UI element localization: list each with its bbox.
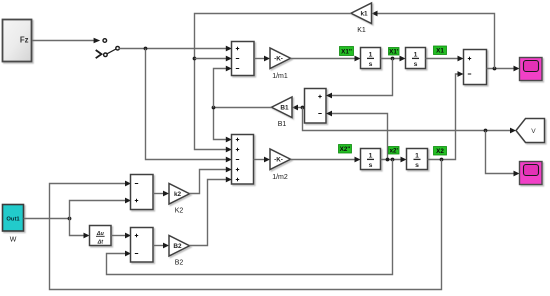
svg-text:k1: k1 — [360, 11, 368, 18]
source block Fz — [3, 20, 32, 62]
wire I1 to integrator I2 — [381, 58, 402, 60]
wire W net up to k2 sum port2 — [70, 201, 128, 219]
integrator I2 — [406, 48, 426, 69]
svg-text:X1'': X1'' — [341, 48, 352, 55]
svg-text:1/m1: 1/m1 — [272, 73, 288, 80]
svg-text:X2: X2 — [436, 148, 444, 155]
tag X2'' — [339, 145, 352, 154]
sum S1 — [232, 42, 255, 76]
svg-text:B1: B1 — [278, 121, 287, 128]
sum S5 spring k2 — [131, 175, 154, 210]
svg-text:1: 1 — [369, 153, 373, 160]
junction B1 net — [212, 106, 216, 110]
svg-text:s: s — [369, 61, 373, 68]
wire stub up to S1 port3 — [214, 69, 228, 108]
svg-text:s: s — [414, 61, 418, 68]
wire du/dt to B2 sum port1 — [111, 235, 127, 237]
integrator I3 — [361, 149, 381, 170]
svg-text:s: s — [415, 162, 419, 169]
wire stub to S1 port2 — [195, 58, 228, 60]
svg-text:1/m2: 1/m2 — [272, 174, 288, 181]
svg-text:-K-: -K- — [274, 56, 283, 63]
gain G1 1/m1 — [270, 48, 291, 80]
tag X1' — [389, 48, 400, 56]
junction W net — [68, 217, 72, 221]
gain B1 — [272, 97, 293, 128]
tag X2 — [434, 147, 447, 156]
junction V net — [484, 129, 488, 133]
wire S2 output to gain 1/m2 — [254, 159, 267, 161]
svg-text:B2: B2 — [175, 260, 184, 267]
wire node V to goto V and scope SC2 — [303, 108, 512, 131]
derivative block du/dt — [90, 226, 112, 246]
wire I3 to integrator I4 — [381, 159, 403, 161]
wire gain 1/m1 to integrator I1 — [291, 58, 357, 60]
wire Fz output to switch — [32, 40, 95, 42]
gain k2 — [169, 184, 190, 215]
svg-text:1: 1 — [415, 153, 419, 160]
svg-text:V: V — [531, 128, 536, 135]
wire S4 output to gain B1 — [298, 107, 305, 109]
wire W net down to derivative — [70, 219, 86, 236]
junction node X2 — [440, 158, 444, 162]
wire I4 up to S3 port2 — [428, 74, 460, 160]
wire S5 output to gain k2 — [153, 193, 165, 195]
wire X2' up to S4 port2 — [332, 114, 388, 160]
wire switch net down to sum S2 port3 — [146, 49, 228, 160]
svg-text:1: 1 — [369, 52, 373, 59]
tag X1 — [434, 46, 447, 55]
svg-text:x2': x2' — [389, 148, 398, 155]
wire S6 output to gain B2 — [153, 245, 165, 247]
wire S1 output to gain 1/m1 — [254, 58, 266, 60]
wire X1' down to S4 port1 — [332, 59, 393, 96]
wire S3 output to scope SC1 — [487, 68, 516, 70]
sum S3 output comparison — [464, 50, 487, 85]
wire feedback up to gain K1 — [377, 14, 495, 69]
manual switch SW1 — [96, 39, 120, 59]
junction node V — [301, 106, 305, 110]
svg-text:Fz: Fz — [20, 36, 29, 45]
gain B2 — [169, 236, 190, 267]
sum S2 mass2 forces — [232, 135, 254, 185]
svg-text:Δt: Δt — [97, 240, 104, 246]
wire I2 to sum S3 port1 — [426, 58, 460, 60]
scope SC2 — [520, 162, 543, 185]
svg-text:B2: B2 — [173, 243, 182, 250]
tag x2' — [389, 147, 400, 155]
scope SC1 — [520, 58, 543, 81]
svg-text:W: W — [10, 237, 17, 244]
wire B1 output to S1 port3 and S2 port1 — [214, 108, 272, 140]
sum S6 damper B2 — [131, 228, 154, 263]
svg-text:B1: B1 — [280, 105, 289, 112]
integrator I4 — [407, 149, 428, 170]
svg-text:X2'': X2'' — [340, 146, 351, 153]
svg-text:X1': X1' — [389, 49, 399, 56]
svg-text:Out1: Out1 — [6, 217, 20, 223]
junction node X2' to S4 — [386, 158, 390, 162]
tag X1'' — [340, 47, 354, 56]
wire Out1 to junction — [24, 218, 70, 220]
goto tag V — [516, 119, 545, 143]
sum S4 velocity difference — [305, 89, 327, 124]
junction K1 net at S1 port2 — [193, 57, 197, 61]
integrator I1 — [361, 48, 381, 69]
outport block Out1 input W — [3, 205, 24, 244]
wire K1 output to S1 port2 and S2 port2 — [195, 14, 352, 150]
svg-text:K2: K2 — [175, 208, 184, 215]
svg-text:1: 1 — [414, 52, 418, 59]
wire V net down to scope SC2 — [486, 131, 516, 174]
wire X2 feedback bottom to k2 sum — [50, 160, 442, 290]
svg-text:-K-: -K- — [274, 157, 283, 164]
junction switch net — [144, 47, 148, 51]
svg-text:k2: k2 — [174, 191, 182, 198]
junction node S3 out — [493, 67, 497, 71]
wire k2 output up to S2 port4 — [190, 170, 228, 194]
gain G2 1/m2 — [270, 149, 291, 181]
svg-text:X1: X1 — [436, 48, 444, 55]
gain K1 — [351, 3, 372, 34]
junction node X2' feedback — [391, 158, 395, 162]
wire B2 output up to S2 port5 — [190, 180, 228, 246]
svg-text:s: s — [369, 162, 373, 169]
wire switch output to sum S1 port1 — [119, 48, 227, 50]
svg-text:K1: K1 — [357, 27, 366, 34]
wire gain 1/m2 to integrator I3 — [291, 159, 357, 161]
junction node X1' — [391, 57, 395, 61]
wire x2' feedback bottom to B2 sum — [107, 160, 393, 275]
